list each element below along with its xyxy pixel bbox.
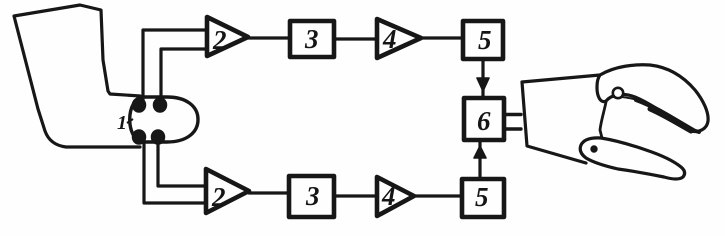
arm stump outline: [14, 5, 140, 147]
upper finger inner claw line 2: [636, 100, 699, 132]
wire block5 top to block 6: [481, 59, 484, 96]
wire amp2 to block 3 (top): [248, 36, 290, 39]
block 3 (bottom): [289, 176, 334, 217]
wire block3 to amplifier 4 (bottom): [334, 194, 377, 197]
arrowhead down into block 6: [477, 78, 489, 91]
wire block5 bottom to block 6: [478, 142, 481, 179]
svg-text:3: 3: [305, 181, 320, 211]
connector stub block6 to hand upper: [504, 113, 521, 116]
wire electrode to top amplifier lower: [161, 49, 206, 100]
wire amp2 to block 3 (bottom): [249, 191, 289, 194]
amplifier 2 (bottom): [206, 169, 249, 213]
amplifier 4 (top): [377, 19, 421, 58]
electrode contact blob top-left: [133, 98, 146, 112]
svg-text:4: 4: [382, 24, 397, 54]
amplifier 4 (bottom): [377, 177, 414, 216]
wire electrode to top amplifier upper: [143, 30, 206, 100]
palm web between fingers: [600, 102, 606, 138]
block 6: [464, 98, 504, 140]
electrode 1 body: [130, 97, 198, 142]
svg-text:2: 2: [211, 182, 226, 212]
svg-text:2: 2: [212, 25, 227, 55]
electrode contact blob bottom-right: [152, 130, 165, 144]
lower finger: [580, 138, 684, 179]
svg-text:6: 6: [477, 106, 491, 136]
connector stub block6 to hand lower: [504, 127, 521, 130]
lower finger pivot dot: [591, 146, 597, 152]
svg-text:5: 5: [478, 25, 492, 55]
block 3 (top): [290, 21, 334, 57]
svg-text:4: 4: [381, 181, 396, 211]
prosthetic hand palm: [522, 75, 600, 163]
wire block3 to amplifier 4 (top): [334, 37, 377, 40]
svg-text:3: 3: [304, 24, 319, 54]
block 5 (top): [463, 21, 503, 59]
wire electrode to bottom amplifier lower: [144, 142, 207, 203]
block 5 (bottom): [462, 179, 504, 217]
upper finger (hook): [597, 65, 708, 132]
wire amp4 to block 5 (bottom): [414, 194, 462, 197]
upper finger inner claw line 1: [610, 97, 697, 131]
amplifier 2 (top): [207, 17, 248, 56]
electrode contact blob bottom-left: [133, 130, 146, 144]
svg-text:1: 1: [117, 112, 127, 134]
arrowhead up into block 6: [474, 146, 486, 158]
wire electrode to bottom amplifier upper: [158, 142, 207, 186]
label 1 pointer tick: [127, 119, 133, 123]
svg-text:5: 5: [475, 182, 489, 212]
electrode contact blob top-right: [154, 98, 167, 112]
upper finger pivot circle: [613, 88, 623, 98]
upper finger inner claw line 3: [650, 109, 691, 131]
wire amp4 to block 5 (top): [421, 36, 463, 39]
